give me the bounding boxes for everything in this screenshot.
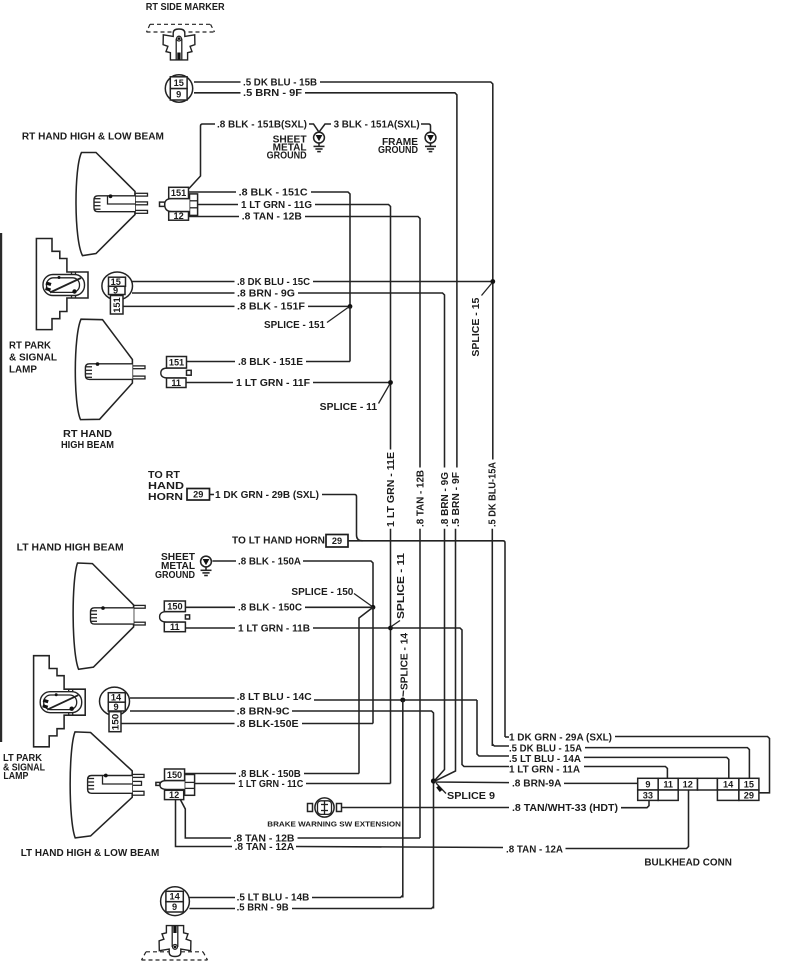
wire .5 BRN - 9B <box>189 908 235 910</box>
svg-text:.8 TAN - 12B: .8 TAN - 12B <box>242 212 302 223</box>
svg-text:.8 TAN - 12B: .8 TAN - 12B <box>415 470 426 527</box>
svg-text:RT HAND HIGH & LOW BEAM: RT HAND HIGH & LOW BEAM <box>22 131 164 142</box>
svg-text:150: 150 <box>167 770 182 780</box>
side marker bulb tube <box>175 39 177 60</box>
svg-text:.5 BRN - 9B: .5 BRN - 9B <box>237 903 289 914</box>
svg-text:12: 12 <box>683 779 693 789</box>
side marker lens plate (dashed) <box>147 24 215 32</box>
signal bulb <box>43 275 85 296</box>
node SPLICE 9 <box>431 778 436 783</box>
svg-text:11: 11 <box>170 622 180 632</box>
prongs <box>134 605 146 608</box>
wire .8 TAN - 12B (LT branch) <box>181 800 232 838</box>
lamp LT SIDE MARKER (bottom) <box>142 926 208 960</box>
node SPLICE - 11 (lower) <box>388 626 393 631</box>
wire 3 BLK - 151A(SXL) <box>319 124 331 132</box>
wire .5 DK BLU - 15A right segment <box>492 744 509 746</box>
wire .8 BLK - 151F <box>123 305 235 307</box>
svg-text:3 BLK - 151A(SXL): 3 BLK - 151A(SXL) <box>334 119 420 130</box>
svg-text:.8 BLK-150E: .8 BLK-150E <box>237 719 299 730</box>
svg-text:1 LT GRN - 11A: 1 LT GRN - 11A <box>509 764 580 775</box>
svg-text:150: 150 <box>167 601 182 611</box>
svg-text:RT PARK: RT PARK <box>9 340 52 351</box>
wire .8 BLK (150 branch to 150B) <box>359 607 373 773</box>
svg-text:GROUND: GROUND <box>267 151 307 162</box>
wire .8 BLK - 151E <box>349 306 351 361</box>
svg-text:15: 15 <box>744 779 754 789</box>
node SPLICE - 11 <box>388 380 393 385</box>
svg-text:12: 12 <box>173 211 183 221</box>
wire 1 LT GRN - 11A feed <box>391 628 510 767</box>
wire .8 TAN (12 riser lower segment) <box>419 529 421 838</box>
prongs <box>135 193 148 196</box>
wire .8 BLK-150E <box>121 723 235 725</box>
svg-text:.5 DK BLU - 15A: .5 DK BLU - 15A <box>509 743 582 754</box>
bottom marker lens plate (dashed) <box>142 952 208 960</box>
wire .5 LT BLU - 14A feed <box>477 700 509 756</box>
svg-text:.8 BLK - 151C: .8 BLK - 151C <box>239 187 308 198</box>
wire TO LT HAND HORN 29 feed <box>348 541 505 737</box>
svg-text:1 LT GRN - 11E: 1 LT GRN - 11E <box>386 452 397 527</box>
svg-text:9: 9 <box>172 902 177 912</box>
svg-text:.8 BRN - 9G: .8 BRN - 9G <box>237 288 295 299</box>
bulb <box>91 608 134 624</box>
svg-text:150: 150 <box>110 714 120 731</box>
svg-text:14: 14 <box>169 892 180 902</box>
wire .8 TAN - 12A <box>176 800 233 847</box>
wire .8 BLK - 150A <box>213 560 237 562</box>
svg-text:9: 9 <box>645 779 650 789</box>
svg-text:29: 29 <box>744 790 754 800</box>
connector TO RT HAND HORN terminal 29 <box>187 489 210 501</box>
svg-text:9: 9 <box>176 89 181 99</box>
svg-text:9: 9 <box>113 286 118 296</box>
svg-text:HAND: HAND <box>148 481 184 492</box>
scan edge artifact <box>0 233 2 742</box>
svg-text:GROUND: GROUND <box>155 570 195 581</box>
lamp LT HAND HIGH BEAM sealed beam <box>73 563 145 669</box>
lamp RT HAND HIGH BEAM sealed beam <box>75 319 145 419</box>
node SPLICE - 14 <box>400 698 405 703</box>
lamp RT PARK & SIGNAL LAMP bracket <box>36 239 88 330</box>
lamp RT HAND HIGH & LOW BEAM sealed beam <box>76 153 148 256</box>
wire .8 BRN - 9G <box>132 292 235 294</box>
svg-text:11: 11 <box>171 378 181 388</box>
svg-text:SPLICE - 151: SPLICE - 151 <box>264 320 325 331</box>
prongs <box>132 774 144 777</box>
wire .8 BLK (150 riser to 150E) <box>372 607 374 723</box>
svg-text:SPLICE - 150: SPLICE - 150 <box>291 587 353 598</box>
connector LT side marker (cavities 14/9) <box>161 887 190 916</box>
wire .8 DK BLU - 15C <box>132 281 235 283</box>
bulb <box>85 364 132 380</box>
svg-text:15: 15 <box>174 78 184 88</box>
svg-text:1 DK GRN - 29A (SXL): 1 DK GRN - 29A (SXL) <box>509 732 612 743</box>
wire .8 BLK - 151B(SXL) <box>189 124 215 189</box>
wire .8 BRN-9C <box>130 710 235 712</box>
svg-text:12: 12 <box>169 790 179 800</box>
connector RT high beam (cavities 151/11) <box>161 357 191 388</box>
wire .8 BLK - 150C <box>185 606 235 608</box>
connector RT high/low beam (cavities 151/12) <box>160 187 198 221</box>
svg-text:.5 BRN - 9F: .5 BRN - 9F <box>451 472 462 527</box>
svg-text:1 LT GRN - 11C: 1 LT GRN - 11C <box>238 779 303 790</box>
svg-text:151: 151 <box>171 188 186 198</box>
svg-text:GROUND: GROUND <box>378 145 418 156</box>
wire .5 LT BLU (14 riser to 14B) <box>402 700 404 898</box>
wire .8 BLK - 151C <box>189 191 237 193</box>
prongs <box>132 366 145 369</box>
svg-text:.5 DK BLU - 15B: .5 DK BLU - 15B <box>243 77 317 88</box>
svg-text:.8 BLK - 151F: .8 BLK - 151F <box>237 302 305 313</box>
wire .8 TAN - 12B <box>189 216 240 218</box>
svg-text:SPLICE - 14: SPLICE - 14 <box>399 633 410 690</box>
svg-text:TO RT: TO RT <box>148 470 180 481</box>
bulb <box>94 196 135 212</box>
svg-text:SPLICE - 15: SPLICE - 15 <box>471 297 482 356</box>
svg-text:.5 LT BLU - 14A: .5 LT BLU - 14A <box>509 754 581 765</box>
wire .5 LT BLU - 14B <box>189 897 235 899</box>
connector LT high/low beam (cavities 150/12) <box>156 769 195 800</box>
svg-text:1 LT GRN - 11G: 1 LT GRN - 11G <box>241 200 312 211</box>
wire .8 LT BLU - 14C <box>130 697 235 699</box>
wire 1 LT GRN - 11G <box>198 204 238 206</box>
svg-text:.8 BLK - 150A: .8 BLK - 150A <box>238 556 301 567</box>
svg-text:HIGH BEAM: HIGH BEAM <box>61 440 114 451</box>
side marker bulb socket body <box>163 29 195 60</box>
connector RT side marker (cavities 15/9) <box>165 75 192 102</box>
svg-text:.8 BLK - 150C: .8 BLK - 150C <box>238 603 302 614</box>
svg-text:LAMP: LAMP <box>9 364 37 375</box>
connector RT park & signal (cavities 15/9/151) <box>102 272 133 314</box>
svg-text:LT HAND HIGH & LOW BEAM: LT HAND HIGH & LOW BEAM <box>21 848 160 859</box>
svg-text:.8 BRN-9C: .8 BRN-9C <box>237 706 290 717</box>
wire 1 DK GRN - 29B (SXL) <box>210 494 215 496</box>
node SPLICE - 15 <box>490 279 495 284</box>
wire 1 LT GRN - 11B <box>185 627 235 629</box>
wire 1 DK GRN - 29A (SXL) right segment <box>505 736 509 738</box>
svg-text:.8 BLK - 151B(SXL): .8 BLK - 151B(SXL) <box>217 119 307 130</box>
svg-text:.5 BRN - 9F: .5 BRN - 9F <box>243 88 302 99</box>
node SPLICE - 151 <box>348 304 353 309</box>
svg-text:LAMP: LAMP <box>3 771 28 782</box>
wire .5 BRN - 9F <box>194 92 241 94</box>
svg-text:.8 BLK - 151E: .8 BLK - 151E <box>238 357 303 368</box>
lamp LT PARK & SIGNAL LAMP bracket <box>34 656 86 747</box>
wire 1 LT GRN - 11F <box>186 382 233 384</box>
svg-text:.8 LT BLU - 14C: .8 LT BLU - 14C <box>237 692 312 703</box>
ground SHEET METAL GROUND (G101) <box>314 132 325 151</box>
svg-text:.8 DK BLU - 15C: .8 DK BLU - 15C <box>237 277 310 288</box>
svg-text:1 LT GRN - 11F: 1 LT GRN - 11F <box>236 378 310 389</box>
svg-text:HORN: HORN <box>148 492 183 503</box>
lamp RT SIDE MARKER (top) <box>147 24 215 60</box>
svg-text:1 DK GRN - 29B (SXL): 1 DK GRN - 29B (SXL) <box>215 490 319 501</box>
svg-text:29: 29 <box>193 490 203 500</box>
svg-text:& SIGNAL: & SIGNAL <box>9 352 57 363</box>
ground SHEET METAL GROUND (G102, LT side) <box>201 556 212 575</box>
svg-text:29: 29 <box>332 536 342 546</box>
svg-text:11: 11 <box>663 779 673 789</box>
node SPLICE - 150 <box>371 605 376 610</box>
connector LT park & signal (cavities 14/9/150) <box>100 687 130 732</box>
svg-text:RT SIDE MARKER: RT SIDE MARKER <box>146 2 226 13</box>
ground FRAME GROUND <box>425 132 436 151</box>
signal bulb <box>40 692 81 713</box>
wire .5 DK BLU (15 riser lower segment to 15A) <box>491 529 493 746</box>
connector LT high beam (cavities 150/11) <box>160 601 190 632</box>
connector BULKHEAD CONN <box>638 778 759 800</box>
svg-text:1 LT GRN - 11B: 1 LT GRN - 11B <box>238 623 310 634</box>
svg-text:14: 14 <box>723 779 734 789</box>
svg-text:151: 151 <box>112 297 122 313</box>
svg-text:.8 BRN-9A: .8 BRN-9A <box>512 779 562 790</box>
svg-text:.8 TAN - 12A: .8 TAN - 12A <box>506 844 563 855</box>
svg-text:.5 DK BLU-15A: .5 DK BLU-15A <box>488 462 499 527</box>
svg-text:BRAKE WARNING SW EXTENSION: BRAKE WARNING SW EXTENSION <box>267 819 401 828</box>
svg-text:SPLICE - 11: SPLICE - 11 <box>320 402 378 413</box>
svg-text:SPLICE 9: SPLICE 9 <box>447 791 495 802</box>
bottom marker bulb tube <box>171 926 173 947</box>
connector BRAKE WARNING SW EXTENSION <box>308 798 342 817</box>
svg-text:TO LT HAND HORN: TO LT HAND HORN <box>232 536 325 547</box>
wire .8 BRN-9A <box>434 781 510 783</box>
svg-text:151: 151 <box>169 357 184 367</box>
bottom marker bulb socket body <box>159 926 191 957</box>
bulb <box>88 776 133 794</box>
wire .5 BRN - 9F (lower segment to splice 9) <box>436 529 456 781</box>
svg-text:BULKHEAD CONN: BULKHEAD CONN <box>644 857 732 868</box>
svg-text:RT HAND: RT HAND <box>63 429 112 440</box>
svg-text:.8 BRN - 9G: .8 BRN - 9G <box>440 472 451 527</box>
svg-text:9: 9 <box>113 702 118 712</box>
wire 1 LT GRN (11 riser lower segment) <box>390 529 392 784</box>
wire .8 BLK - 150B <box>185 773 237 775</box>
svg-text:LT HAND HIGH BEAM: LT HAND HIGH BEAM <box>17 543 124 554</box>
svg-text:SPLICE - 11: SPLICE - 11 <box>396 552 407 619</box>
wire 1 LT GRN - 11C <box>195 783 236 785</box>
wire .5 DK BLU - 15B <box>194 81 241 83</box>
wire .8 TAN/WHT-33 (HDT) <box>342 807 510 809</box>
svg-text:33: 33 <box>643 790 653 800</box>
connector TO LT HAND HORN terminal 29 <box>326 535 348 548</box>
lamp LT HAND HIGH & LOW BEAM sealed beam <box>70 732 144 838</box>
svg-text:.8 TAN - 12A: .8 TAN - 12A <box>235 842 295 853</box>
svg-text:.8 TAN/WHT-33 (HDT): .8 TAN/WHT-33 (HDT) <box>512 803 618 814</box>
